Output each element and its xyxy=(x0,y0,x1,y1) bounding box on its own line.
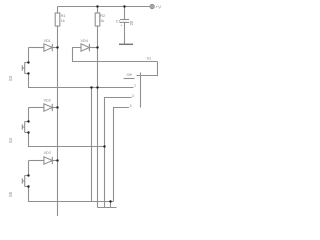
resistor R1 xyxy=(55,13,60,26)
svg-text:+: + xyxy=(120,23,122,27)
resistor R2 xyxy=(95,13,100,26)
node S4 bottom xyxy=(27,131,29,133)
wire S4 row to bus xyxy=(29,133,105,147)
svg-text:20: 20 xyxy=(129,20,134,25)
wire R2 column xyxy=(97,7,99,14)
svg-text:1: 1 xyxy=(134,84,136,88)
ground xyxy=(119,43,133,45)
node S5 bottom xyxy=(27,185,29,187)
svg-text:+V: +V xyxy=(156,5,162,10)
svg-text:R2: R2 xyxy=(100,14,105,18)
node S4 top xyxy=(27,120,29,122)
switch S1 Off contact stub xyxy=(124,78,135,80)
svg-text:S4: S4 xyxy=(8,137,13,143)
wire S5 row to bottom bus xyxy=(29,187,114,202)
svg-text:3: 3 xyxy=(130,104,132,108)
capacitor C1 xyxy=(120,7,129,44)
wire VD4 anode loop to S1 line xyxy=(73,48,158,62)
node R2 top xyxy=(96,5,98,7)
switch S1 pin2 stub and wire C xyxy=(105,98,132,147)
node C1 top xyxy=(123,5,125,7)
diode VD1 xyxy=(29,44,58,51)
pushbutton S3 xyxy=(22,63,28,74)
wire C lower xyxy=(104,147,106,208)
svg-text:2: 2 xyxy=(132,94,134,98)
wire S3 branch xyxy=(28,48,30,63)
node B pin1 xyxy=(96,86,98,88)
svg-text:R1: R1 xyxy=(61,14,66,18)
node VD3 cathode xyxy=(56,159,58,161)
node bottom bus xyxy=(109,200,111,202)
svg-text:VD1: VD1 xyxy=(44,39,51,43)
node VD2 cathode xyxy=(56,106,58,108)
node S3 top xyxy=(27,61,29,63)
svg-text:1k: 1k xyxy=(61,19,65,23)
node S3 bottom xyxy=(27,72,29,74)
node A top xyxy=(90,86,92,88)
svg-text:VD4: VD4 xyxy=(81,39,88,43)
wire bottom bus xyxy=(98,207,117,209)
diode VD3 xyxy=(29,157,58,164)
switch S1 pin3 stub and wire D xyxy=(114,108,130,202)
switch S1 common arm xyxy=(137,62,158,76)
node bus C row2 xyxy=(103,145,105,147)
pushbutton S5 xyxy=(22,161,28,187)
svg-text:VD3: VD3 xyxy=(44,151,51,155)
terminal +V xyxy=(150,4,154,8)
pushbutton S4 xyxy=(22,108,28,133)
diode VD4 xyxy=(81,44,98,51)
svg-text:S5: S5 xyxy=(8,191,13,197)
svg-text:1k: 1k xyxy=(100,19,104,23)
diode VD2 xyxy=(29,104,58,111)
wire branch A down xyxy=(91,88,93,202)
wire R1 column full height xyxy=(57,7,59,217)
node VD1 cathode xyxy=(56,46,58,48)
svg-text:VD2: VD2 xyxy=(44,99,51,103)
wire S3 to pin1 line xyxy=(29,74,134,88)
svg-text:S3: S3 xyxy=(8,75,13,81)
node S5 top xyxy=(27,174,29,176)
node VD4 cathode xyxy=(96,46,98,48)
wire bottom link xyxy=(110,202,112,208)
svg-text:S1: S1 xyxy=(147,57,152,61)
wire top rail xyxy=(58,6,151,8)
